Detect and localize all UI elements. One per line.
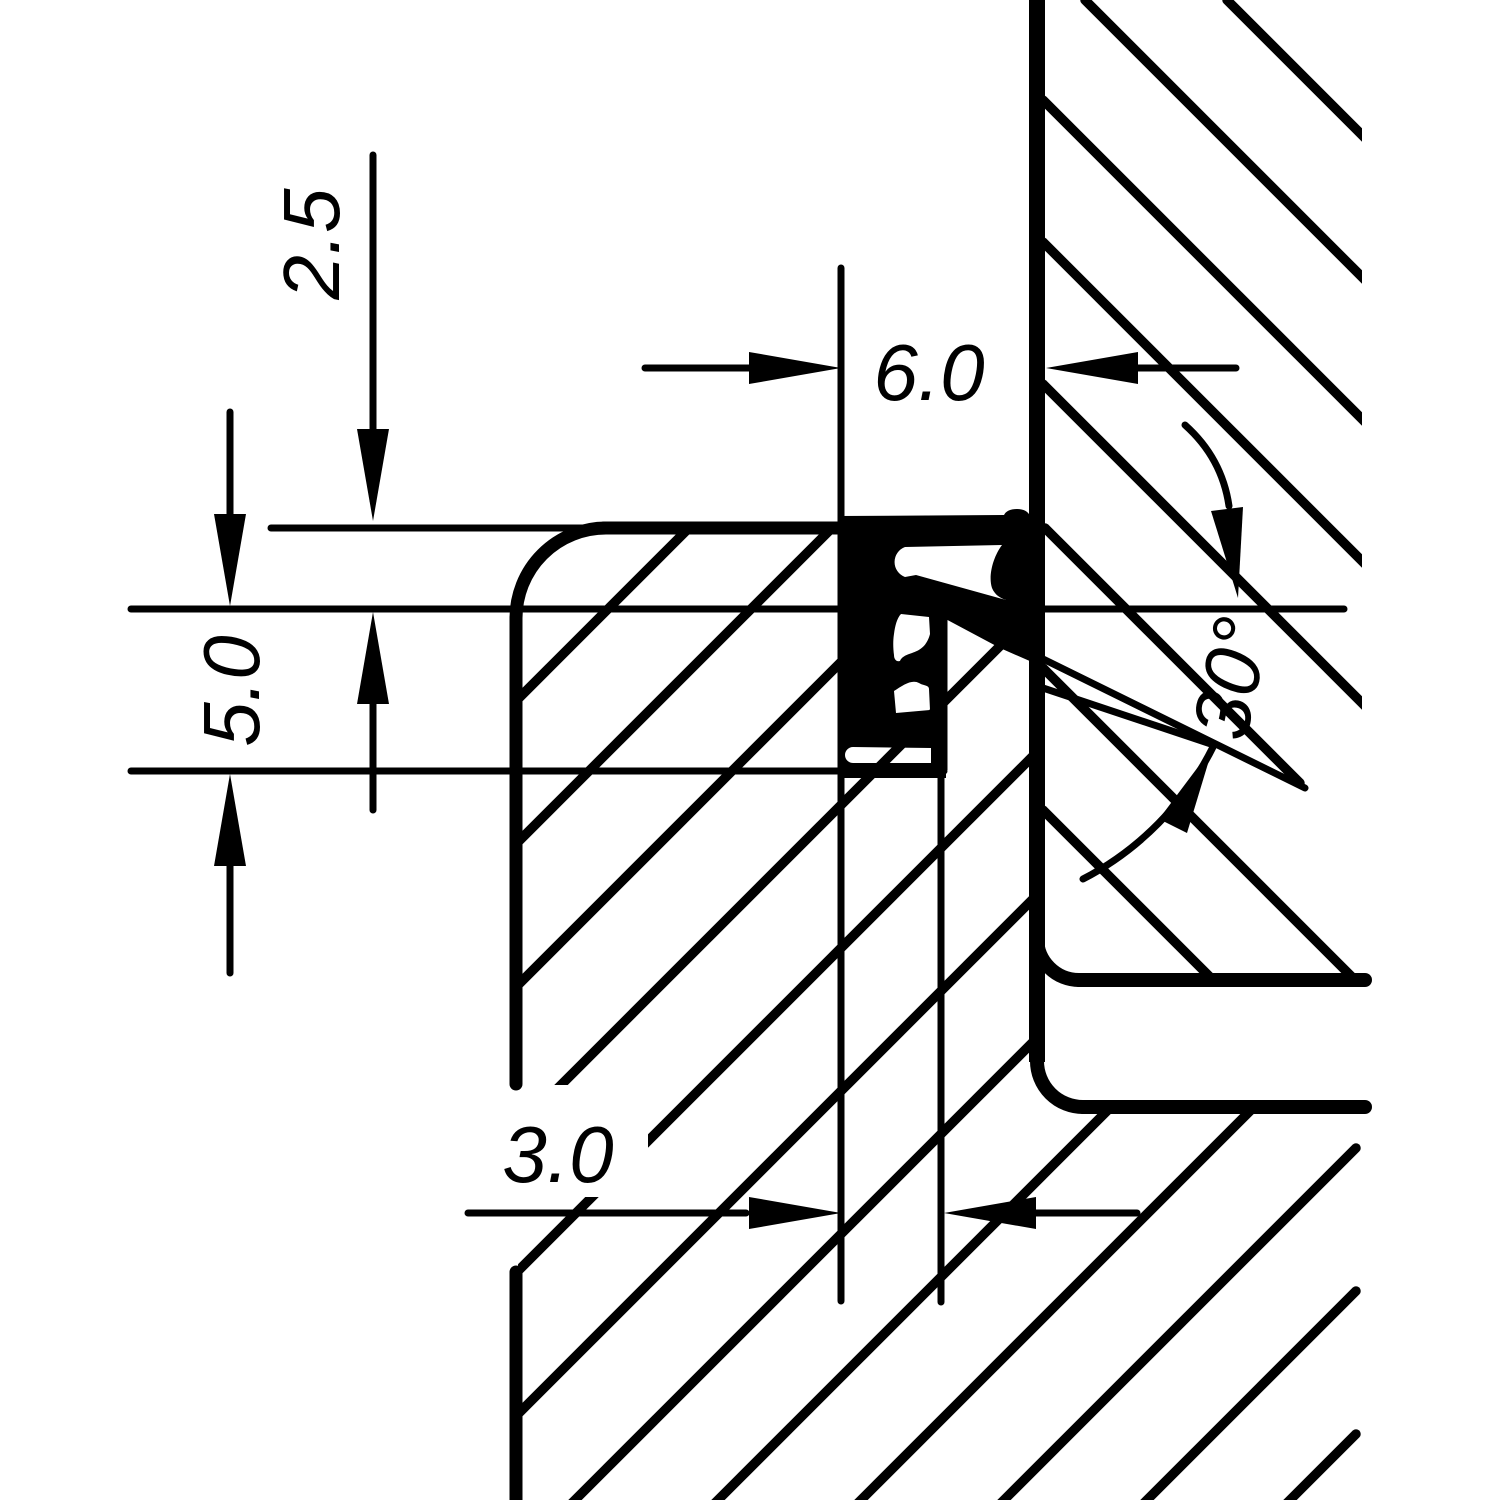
dimension 2.5 line lower <box>370 700 377 810</box>
dimension 3.0 left tail <box>468 1210 746 1217</box>
hatching of right frame part (section lines 45deg) <box>1043 0 1366 1133</box>
angular dimension arc arrowhead <box>1159 747 1213 833</box>
dimension 5.0 line lower <box>227 862 234 973</box>
thin vertical extension line x=841 <box>838 268 845 1301</box>
left sash part outline: left edge lower <box>510 1272 523 1500</box>
left sash part outline: top edge of lip <box>604 522 845 535</box>
dimension 5.0 arrowhead upper <box>214 514 246 606</box>
leader arrowhead <box>1211 507 1243 598</box>
dimension 3.0 right tail <box>1036 1210 1137 1217</box>
angular dimension arc <box>1083 747 1213 879</box>
seal profile (filled) <box>839 509 1032 778</box>
right frame part: wall face <box>1029 0 1045 1062</box>
right frame part: upper notch corner <box>1037 938 1079 980</box>
dimension 6.0 left arrowhead <box>749 352 841 384</box>
leader line for 30 deg <box>1185 425 1229 506</box>
dimension 2.5 arrowhead upper <box>357 429 389 521</box>
groove right wall <box>935 610 948 770</box>
dimension 2.5 line upper <box>370 155 377 500</box>
dimension 2.5 arrowhead lower <box>357 612 389 704</box>
thin horizontal surface reference line y=609 <box>131 606 1344 613</box>
right frame part: notch bottom edge <box>1083 1100 1365 1114</box>
hatching of left sash part (section lines 45deg) <box>0 510 1500 1500</box>
svg-text:5.0: 5.0 <box>187 635 276 746</box>
lip deflection line lower <box>1037 686 1211 744</box>
thin horizontal groove bottom reference line y=771 <box>131 768 944 775</box>
dimension 6.0 left tail <box>645 365 750 372</box>
svg-text:6.0: 6.0 <box>873 328 984 417</box>
left sash part outline: left edge upper <box>510 618 523 1084</box>
thin vertical extension line x=941 <box>938 620 945 1302</box>
dimension 6.0 right arrowhead <box>1046 352 1138 384</box>
dimension 3.0 right arrowhead <box>944 1197 1036 1229</box>
lip deflection line upper <box>1037 656 1305 788</box>
left sash part outline: rounded corner <box>516 528 606 618</box>
right frame part: notch top edge <box>1079 973 1365 987</box>
white gap for text 3.0 <box>468 1085 648 1197</box>
dimension 5.0 line upper <box>227 412 234 540</box>
dimension 5.0 arrowhead lower <box>214 774 246 866</box>
svg-text:3.0: 3.0 <box>502 1110 613 1199</box>
thin horizontal reference line top of groove lip (y=528 extension) <box>271 525 612 532</box>
right frame part: lower corner <box>1037 1061 1083 1107</box>
dimension 6.0 right tail <box>1138 365 1236 372</box>
svg-text:2.5: 2.5 <box>267 188 356 301</box>
hatch line with short end near lip <box>1045 528 1300 783</box>
dimension 3.0 left arrowhead <box>749 1197 841 1229</box>
